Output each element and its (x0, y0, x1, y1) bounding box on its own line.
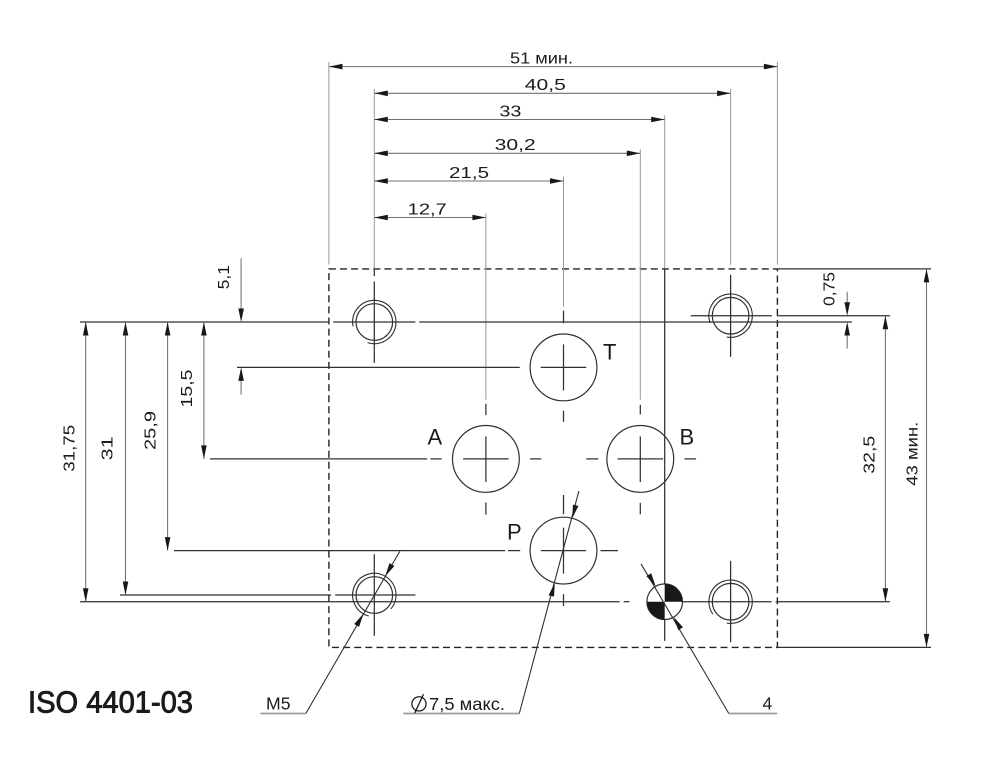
locating pin hole d4, filled quadrants (647, 584, 683, 620)
mounting hole bottom-right M5, thread arc (709, 580, 752, 623)
vertical centreline bottom-right hole (730, 561, 732, 642)
port T horizontal cross bar (541, 366, 587, 368)
svg-text:43 мин.: 43 мин. (904, 422, 921, 486)
horizontal line to port P centre (25,9) (174, 550, 505, 552)
dimension 32,5 (vertical right) (884, 316, 886, 602)
horizontal datum line through top-left hole (y=31,75 ref) (80, 321, 329, 323)
svg-text:P: P (507, 520, 522, 545)
horizontal line through bottom-left hole (31) (120, 594, 331, 596)
mounting hole top-right M5, thread arc (709, 294, 752, 337)
underline 7,5 макс. (403, 713, 519, 715)
leader 4 to locating pin (641, 564, 729, 714)
underline 4 (729, 713, 778, 715)
svg-text:51 мин.: 51 мин. (510, 50, 573, 67)
svg-text:33: 33 (499, 103, 521, 120)
svg-text:40,5: 40,5 (525, 77, 566, 94)
svg-text:B: B (680, 425, 695, 450)
vertical centreline ports T and P (563, 311, 565, 324)
svg-text:31,75: 31,75 (62, 425, 79, 472)
horizontal centreline ports A-B (15,5) (210, 458, 427, 460)
dimension 30,2 (374, 152, 640, 154)
dimension 40,5 (374, 92, 730, 94)
bottom edge extension to 43 мин. dimension (778, 646, 931, 648)
port T circle (530, 334, 597, 401)
port A circle (453, 426, 520, 493)
extension line, port A (12,7) (485, 213, 487, 400)
mounting hole bottom-left M5, thread arc (353, 573, 396, 616)
dimension 51 мин. (horizontal) (329, 66, 777, 68)
diameter symbol (412, 697, 426, 711)
svg-text:21,5: 21,5 (449, 165, 489, 182)
extension line, top-right hole (40,5) (730, 89, 732, 265)
vertical centreline bottom-left hole (373, 554, 375, 636)
underline M5 (261, 713, 306, 715)
dimension 12,7 (374, 217, 486, 219)
horizontal line through top-right hole (0,75 offset) (691, 315, 772, 317)
dimension 25,9 (vertical left) (167, 322, 169, 551)
svg-text:32,5: 32,5 (861, 436, 878, 474)
port P horizontal cross bar (541, 550, 586, 552)
dimension 31 (vertical left) (125, 322, 127, 595)
dimension 5,1 (vertical, outside arrows) (240, 258, 242, 310)
extension line, port T (21,5) (563, 177, 565, 307)
vertical centreline port B (639, 405, 641, 415)
vertical position line for locating pin (33) (664, 269, 666, 641)
svg-text:5,1: 5,1 (216, 265, 233, 289)
port A horizontal cross bar (463, 458, 509, 460)
svg-text:ISO 4401-03: ISO 4401-03 (28, 686, 193, 720)
vertical centreline port A (485, 404, 487, 415)
extension line, top-left hole (40,5/33/30,2/21,5/12,7) (373, 89, 375, 268)
top edge extension to 43 мин. dimension (778, 268, 931, 270)
vertical centreline top-left hole (373, 269, 375, 276)
drawing frame / mounting plate outline (dashed) (329, 269, 778, 648)
horizontal line through pin and bottom-right hole (31,75) (80, 601, 620, 603)
svg-text:0,75: 0,75 (822, 272, 839, 306)
svg-text:4: 4 (763, 694, 773, 714)
mounting hole top-left M5, tap circle (356, 304, 393, 341)
extension line, pin (33) (664, 116, 666, 269)
leader ⌀7,5 макс. to port P (519, 491, 579, 714)
svg-text:T: T (603, 340, 616, 365)
svg-text:M5: M5 (266, 694, 291, 714)
mounting hole bottom-left M5, tap circle (356, 577, 393, 614)
leader M5 to bottom-left hole (306, 551, 400, 713)
vertical centreline top-right hole (730, 275, 732, 357)
horizontal line to port T centre (5,1) (237, 366, 520, 368)
svg-text:7,5 макс.: 7,5 макс. (429, 694, 505, 714)
mounting hole top-right M5, tap circle (712, 297, 749, 334)
port B horizontal cross bar (618, 458, 664, 460)
dimension 15,5 (vertical left) (203, 322, 205, 459)
svg-text:31: 31 (100, 436, 117, 460)
port B circle (607, 426, 674, 493)
svg-text:15,5: 15,5 (179, 369, 196, 407)
dimension 43 мин. (vertical right) (926, 269, 928, 648)
extension line, port B (30,2) (639, 149, 641, 400)
port P circle (530, 517, 597, 584)
dimension 0,75 (vertical right, outside arrows) (846, 292, 848, 304)
dimension 31,75 (vertical left) (85, 322, 87, 602)
svg-text:A: A (428, 425, 443, 450)
extension line, left edge (51 мин.) (328, 62, 330, 265)
extension line, right edge (51 мин.) (776, 62, 778, 265)
dimension 33 (374, 119, 664, 121)
mounting hole bottom-right M5, tap circle (712, 583, 749, 620)
mounting hole top-left M5, thread arc (353, 300, 396, 343)
dimension 21,5 (374, 180, 563, 182)
svg-text:25,9: 25,9 (143, 411, 160, 450)
svg-text:12,7: 12,7 (408, 201, 447, 218)
svg-text:30,2: 30,2 (495, 137, 536, 154)
